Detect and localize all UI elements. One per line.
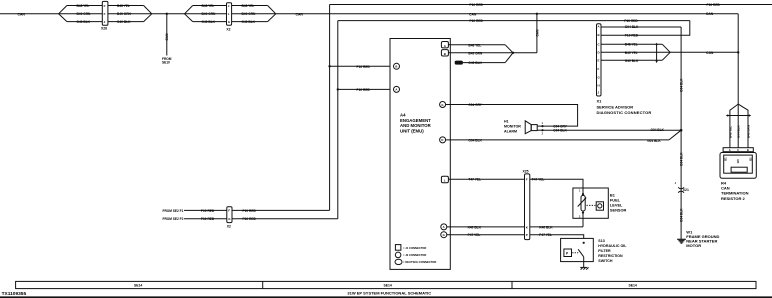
wire merge 2 [268, 6, 276, 14]
node junction CAN / X1 [737, 51, 739, 53]
svg-text:B: B [598, 33, 600, 37]
svg-text:S13: S13 [598, 239, 604, 243]
EMU pin circle left 1 [394, 63, 400, 69]
svg-text:1: 1 [542, 122, 544, 125]
svg-text:B48 YEL: B48 YEL [242, 4, 255, 8]
svg-text:B48 YEL: B48 YEL [117, 4, 130, 8]
wire P10 jog to X1 pin B [601, 21, 690, 36]
legend square connector [395, 245, 401, 251]
wire B48 YEL [193, 5, 227, 7]
wire merge X1 [662, 44, 670, 52]
wire CAN bus from X1 [670, 51, 738, 53]
EMU pin circle ground [440, 137, 446, 143]
svg-text:P: P [526, 233, 528, 237]
node junction CAN / EMU [536, 13, 538, 15]
wire B49 GRN CAN lo [448, 52, 513, 54]
EMU pin square A [441, 42, 448, 48]
wire P10 RED vertical left [329, 5, 331, 211]
svg-text:B1: B1 [723, 157, 727, 161]
alarm H1 horn [531, 125, 537, 131]
twisted pair bar R4 [727, 115, 751, 117]
wire fork 2 [185, 6, 193, 14]
connector strip R4 [723, 148, 753, 152]
svg-text:P10 RED: P10 RED [357, 88, 371, 92]
svg-text:G04 BLK: G04 BLK [553, 128, 567, 132]
svg-text:B: B [395, 65, 397, 69]
svg-text:DIAGNOSTIC CONNECTOR: DIAGNOSTIC CONNECTOR [597, 110, 652, 115]
svg-text:A: A [729, 148, 731, 152]
connector X25 [525, 174, 530, 240]
wire CAN drop to SE10 [166, 14, 168, 56]
wire CAN trunk [152, 13, 185, 15]
svg-text:G40 BLK: G40 BLK [242, 20, 256, 24]
resistor potentiometer [581, 195, 585, 211]
wire B49 GRN [232, 13, 276, 15]
wire B48 YEL [232, 5, 268, 7]
svg-text:CAN: CAN [706, 12, 714, 16]
switch pressure box P [564, 249, 572, 257]
wire P10 RED to vertical 2 [232, 218, 338, 220]
wire B49 YEL pin D [601, 51, 670, 53]
svg-text:X2: X2 [227, 225, 231, 229]
svg-text:B48 YEL: B48 YEL [202, 4, 215, 8]
svg-text:SWITCH: SWITCH [598, 259, 613, 263]
svg-text:A: A [443, 225, 445, 229]
svg-text:G04 BLK: G04 BLK [680, 78, 684, 92]
svg-text:= DEUTSCH CONNECTOR: = DEUTSCH CONNECTOR [403, 260, 436, 264]
bottom-left feed row 1 [163, 209, 184, 213]
svg-text:CAN: CAN [721, 185, 730, 190]
svg-text:K40 BLK: K40 BLK [468, 225, 482, 229]
svg-text:G: G [443, 233, 445, 237]
wire CAN vertical right [737, 14, 739, 104]
wire CAN trunk east [276, 13, 738, 15]
svg-text:B49 GRN: B49 GRN [468, 51, 483, 55]
wire alarm pins [537, 125, 542, 127]
wire P10 RED vertical 2 [337, 21, 339, 219]
svg-text:31W EP SYSTEM FUNCTIONAL SCHEM: 31W EP SYSTEM FUNCTIONAL SCHEMATIC [347, 290, 431, 295]
svg-text:P47 YEL: P47 YEL [539, 233, 552, 237]
svg-text:B49 GRN: B49 GRN [202, 12, 217, 16]
wire EMU supply 1 [330, 65, 394, 67]
svg-text:SE10: SE10 [162, 60, 170, 64]
svg-text:TX1109355: TX1109355 [2, 291, 27, 297]
EMU A4 box [390, 39, 450, 270]
dashed actuator link [572, 252, 578, 254]
wire G40 BLK [108, 21, 144, 23]
svg-text:120: 120 [736, 159, 740, 164]
connector X2 bottom [227, 207, 232, 223]
svg-text:MONITOR: MONITOR [504, 125, 521, 129]
wire K40 BLK to sensor [530, 226, 583, 228]
EMU pin square L [441, 176, 448, 182]
connector X21 bullet [678, 187, 684, 189]
svg-text:F: F [526, 178, 528, 182]
svg-text:FILTER: FILTER [598, 249, 611, 253]
node junction P10 tap 2 [337, 88, 339, 90]
wire B49 GRN [59, 13, 103, 15]
wire P10 RED to vertical 1 [232, 209, 330, 211]
svg-text:T47 YEL: T47 YEL [468, 178, 481, 182]
svg-text:B48 YEL: B48 YEL [77, 4, 90, 8]
svg-text:F: F [104, 4, 106, 8]
wire switch to chassis ground [583, 257, 585, 268]
svg-text:ALARM: ALARM [504, 130, 517, 134]
svg-text:T47 YEL: T47 YEL [532, 178, 545, 182]
wire T47 YEL fuel sense [448, 178, 524, 180]
svg-text:FROM SE2 F1: FROM SE2 F1 [163, 209, 184, 213]
svg-text:P10 RED: P10 RED [201, 209, 215, 213]
svg-text:SE14: SE14 [384, 283, 392, 287]
legend ellipse connector [395, 259, 402, 264]
svg-text:P10 RED: P10 RED [470, 19, 484, 23]
svg-text:MOTOR: MOTOR [686, 243, 701, 248]
EMU pin circle alarm [440, 102, 446, 108]
svg-text:HYDRAULIC OIL: HYDRAULIC OIL [598, 244, 627, 248]
wire B48 YEL [67, 5, 102, 7]
svg-text:B49 GRN: B49 GRN [242, 12, 257, 16]
wire G40 BLK shield [463, 62, 505, 64]
wire C04 GRY alarm signal [446, 105, 578, 127]
resistor R4 body [720, 153, 756, 179]
svg-text:B48 YEL: B48 YEL [468, 43, 481, 47]
node CAN label [18, 12, 26, 16]
wire G04 BLK from EMU [446, 139, 669, 141]
wire fork to twisted pair [59, 6, 67, 14]
wire B48 YEL [108, 5, 144, 7]
switch blade [578, 249, 584, 256]
svg-text:CAN: CAN [469, 12, 477, 16]
wire P10 RED pin B [625, 34, 639, 38]
svg-text:= J2 CONNECTOR: = J2 CONNECTOR [403, 253, 426, 257]
svg-text:P10 RED: P10 RED [470, 3, 484, 7]
shield terminator [455, 61, 463, 65]
svg-text:B2: B2 [749, 157, 753, 161]
svg-text:G40 BLK: G40 BLK [117, 20, 131, 24]
svg-text:2: 2 [542, 133, 544, 136]
drawing number [2, 291, 27, 297]
svg-text:G04 BLK: G04 BLK [625, 25, 639, 29]
svg-text:A4: A4 [400, 113, 406, 118]
EMU pin circle G bottom [441, 232, 447, 238]
sensor float box [596, 202, 603, 210]
node junction [166, 13, 168, 15]
EMU pin square B [441, 50, 448, 56]
svg-text:C04 GRY: C04 GRY [468, 103, 482, 107]
svg-text:F: F [598, 67, 600, 71]
svg-text:G40 BLK: G40 BLK [625, 59, 639, 63]
svg-text:G: G [441, 103, 443, 107]
svg-text:P10 RED: P10 RED [624, 19, 638, 23]
svg-text:B49 GRN: B49 GRN [746, 125, 750, 138]
node ground junction [680, 129, 683, 132]
bottom border [0, 296, 772, 298]
wire B49 GRN [185, 13, 227, 15]
svg-text:G40 BLK: G40 BLK [77, 20, 91, 24]
svg-text:SERVICE ADVISOR: SERVICE ADVISOR [597, 104, 634, 109]
wire K40 BLK [447, 226, 525, 228]
svg-text:B48 YEL: B48 YEL [728, 126, 732, 138]
svg-text:G04 BLK: G04 BLK [737, 124, 741, 138]
svg-text:B48 YEL: B48 YEL [625, 43, 638, 47]
wire G40 BLK [232, 21, 268, 23]
svg-text:P10 RED: P10 RED [625, 34, 639, 38]
wire P10 RED second [338, 20, 690, 22]
svg-text:L: L [228, 12, 230, 16]
svg-text:SE14: SE14 [629, 283, 637, 287]
node switch contact [583, 242, 585, 244]
svg-text:J: J [675, 182, 677, 185]
svg-text:C: C [737, 148, 739, 152]
svg-text:P10 RED: P10 RED [201, 217, 215, 221]
wire G40 BLK [67, 21, 102, 23]
svg-text:1: 1 [579, 190, 581, 193]
svg-text:P: P [566, 252, 569, 256]
dashed wiper link [587, 204, 596, 206]
title [347, 290, 431, 295]
svg-text:B49 GRN: B49 GRN [77, 12, 92, 16]
connector X2 [227, 3, 232, 26]
svg-text:B49 GRN: B49 GRN [117, 12, 132, 16]
footer frame [16, 281, 756, 288]
svg-text:X21: X21 [683, 188, 689, 192]
svg-text:H: H [598, 84, 600, 88]
connector X28 [102, 1, 108, 25]
bottom-left feed row 2 [163, 217, 184, 221]
svg-text:G04 BLK: G04 BLK [468, 138, 482, 142]
svg-text:F: F [104, 12, 106, 16]
svg-text:P47 YEL: P47 YEL [468, 233, 481, 237]
wire G40 BLK [193, 21, 227, 23]
wire G04 BLK alarm ground [543, 129, 682, 131]
svg-text:= J1 CONNECTOR: = J1 CONNECTOR [403, 246, 426, 250]
wire diagonal join to ground [669, 130, 681, 140]
svg-text:CAN: CAN [296, 12, 304, 16]
svg-text:F: F [228, 209, 230, 213]
svg-text:CAN: CAN [165, 33, 169, 41]
wire ground vertical [680, 27, 682, 239]
svg-text:G04 BLK: G04 BLK [680, 208, 684, 222]
wire P47 YEL to switch [530, 235, 584, 239]
svg-text:D: D [441, 138, 443, 142]
svg-text:G40 BLK: G40 BLK [202, 20, 216, 24]
svg-text:X2: X2 [226, 27, 230, 31]
ground W1 [677, 238, 686, 240]
wire merge [144, 6, 152, 14]
svg-text:CAN: CAN [706, 51, 714, 55]
wire T47 YEL to sensor [530, 179, 583, 188]
svg-text:FROM SE2 F2: FROM SE2 F2 [163, 217, 184, 221]
svg-text:G40 BLK: G40 BLK [468, 61, 482, 65]
sensor internal wire [582, 188, 584, 195]
wire P10 RED top [330, 4, 772, 6]
svg-text:P10 RED: P10 RED [243, 217, 257, 221]
svg-text:RESTRICTION: RESTRICTION [598, 254, 623, 258]
wire CAN up to trunk [536, 14, 538, 53]
switch S13 box [561, 238, 594, 261]
svg-text:H1: H1 [504, 120, 509, 124]
wire merge to CAN [505, 45, 513, 53]
connector X1 [597, 24, 602, 96]
wire G04 BLK pin A [601, 26, 681, 28]
wire B49 GRN [108, 13, 152, 15]
node junction P10 tap [328, 65, 330, 67]
svg-text:CAN: CAN [18, 12, 26, 16]
wire P47 YEL [447, 234, 525, 236]
svg-text:A: A [395, 88, 397, 92]
wire B48 YEL CAN hi [448, 44, 505, 46]
svg-text:X28: X28 [101, 27, 107, 31]
svg-text:L: L [444, 179, 446, 183]
legend circle connector [395, 252, 401, 258]
svg-text:P10 RED: P10 RED [357, 65, 371, 69]
svg-text:X1: X1 [597, 99, 603, 104]
svg-text:SE14: SE14 [134, 283, 142, 287]
svg-text:B49 YEL: B49 YEL [625, 51, 638, 55]
svg-text:CAN: CAN [535, 29, 539, 37]
EMU pin circle left 2 [394, 86, 400, 92]
CAN terminator fork [730, 104, 738, 148]
wire G40 BLK pin E [601, 59, 662, 61]
svg-text:G04 BLK: G04 BLK [651, 128, 665, 132]
svg-text:X25: X25 [523, 170, 529, 174]
svg-text:SENSOR: SENSOR [610, 207, 627, 212]
chassis ground [580, 267, 588, 269]
svg-text:P10 RED: P10 RED [707, 3, 721, 7]
svg-text:K40 BLK: K40 BLK [539, 225, 553, 229]
svg-text:D: D [598, 51, 600, 55]
svg-text:G04 BLK: G04 BLK [680, 152, 684, 166]
fuel sensor B1 box [573, 188, 608, 218]
svg-text:E: E [598, 59, 600, 63]
svg-text:RESISTOR 2: RESISTOR 2 [721, 196, 745, 201]
wire EMU supply 2 [338, 88, 393, 90]
svg-text:B: B [747, 148, 749, 152]
svg-text:UNIT (EMU): UNIT (EMU) [400, 128, 424, 133]
svg-text:G04 BLK: G04 BLK [647, 139, 661, 143]
wire CAN trunk left [0, 13, 59, 15]
twisted pair bar [656, 44, 658, 63]
wire B48 YEL pin C [601, 43, 662, 45]
svg-text:P10 RED: P10 RED [243, 209, 257, 213]
EMU pin circle A bottom [441, 224, 447, 230]
